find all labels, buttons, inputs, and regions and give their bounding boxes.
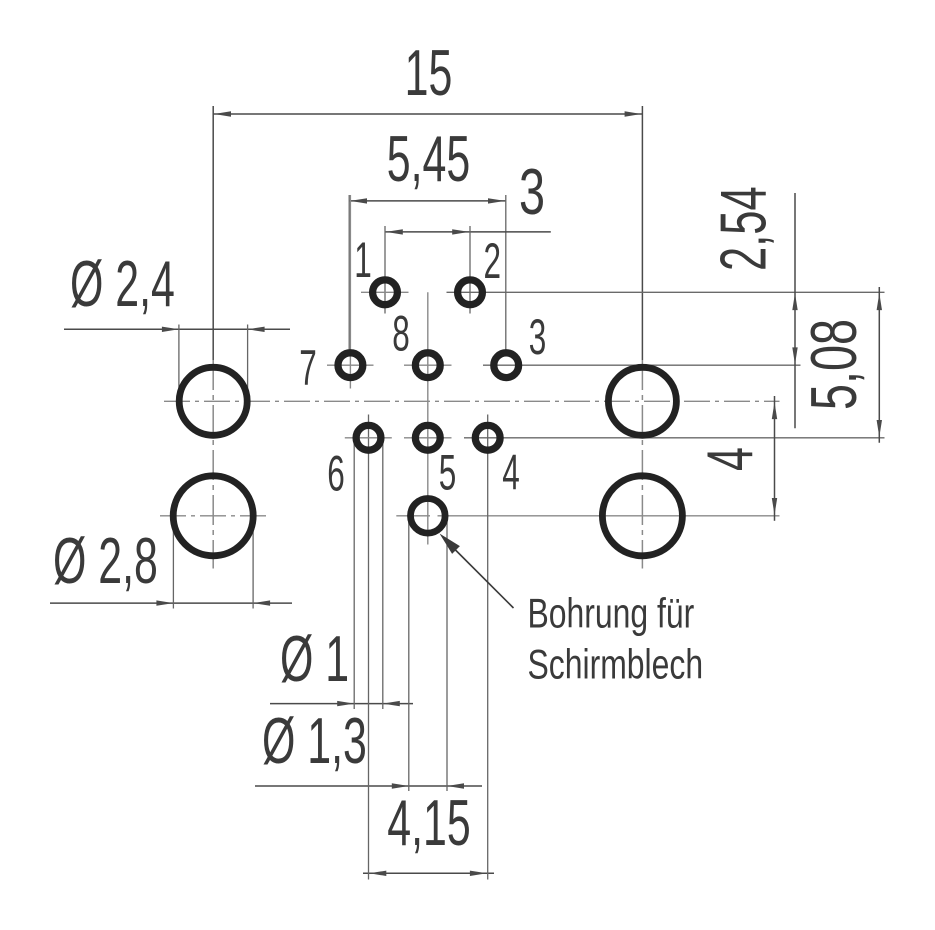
wire row line y=438 from pin 4 to dim 5,08 <box>464 437 885 439</box>
svg-text:4,15: 4,15 <box>387 786 470 859</box>
dimension diameter 1,3 <box>255 516 482 791</box>
wire lower row centerline left segment y=516 <box>160 515 267 517</box>
pin 7 hole <box>338 353 363 378</box>
dimension diameter 1 <box>270 438 413 709</box>
svg-text:8: 8 <box>392 305 410 361</box>
svg-text:15: 15 <box>405 36 453 109</box>
pin 4 hole <box>475 425 500 450</box>
wire vertical centerline right column x=642 <box>641 106 643 569</box>
svg-text:Ø 1,3: Ø 1,3 <box>262 704 367 777</box>
svg-text:Bohrung für: Bohrung für <box>528 589 695 636</box>
mounting hole top right diameter 2,4 <box>608 367 676 435</box>
wire vertical centerline left column x=213 <box>212 106 214 569</box>
svg-text:Schirmblech: Schirmblech <box>528 640 704 687</box>
mounting hole top left diameter 2,4 <box>179 367 247 435</box>
dimension 5,45 line <box>349 195 506 351</box>
dimension 3 line <box>385 226 551 314</box>
pin 5 hole <box>415 425 440 450</box>
pin 2 hole <box>458 280 483 305</box>
crosshair pin 8 <box>404 364 452 366</box>
crosshair pin 1 <box>361 291 409 293</box>
dimension diameter 2,8 <box>50 516 292 609</box>
svg-text:7: 7 <box>299 340 317 396</box>
svg-text:1: 1 <box>354 232 372 288</box>
svg-text:Ø 2,4: Ø 2,4 <box>70 247 175 320</box>
svg-text:5,45: 5,45 <box>387 122 470 195</box>
svg-text:3: 3 <box>529 309 547 365</box>
pin 3 hole <box>494 353 519 378</box>
svg-text:6: 6 <box>327 445 345 501</box>
wire row line y=365 from pin 3 to dim 2,54 <box>483 364 801 366</box>
dimension 5,08 vertical <box>877 287 882 443</box>
wire row line y=292 from pin 2 to dim 5,08 <box>447 291 885 293</box>
mounting hole bottom right diameter 2,8 <box>602 476 682 556</box>
wire lower row centerline y=516 to dim 4 <box>396 515 430 517</box>
svg-text:5: 5 <box>439 444 457 500</box>
shield hole diameter 1,3 <box>411 499 446 534</box>
wire center vertical x=428 through pins 8 5 and shield hole <box>427 292 429 544</box>
svg-text:3: 3 <box>519 157 545 229</box>
pin 6 hole <box>356 425 381 450</box>
leader line to shield hole <box>440 534 514 609</box>
svg-text:Ø 1: Ø 1 <box>280 622 349 695</box>
crosshair pin 7 <box>327 195 374 389</box>
svg-text:Ø 2,8: Ø 2,8 <box>53 524 158 597</box>
svg-text:2,54: 2,54 <box>707 186 780 271</box>
crosshair pin 5 <box>404 437 452 439</box>
svg-text:4: 4 <box>502 444 520 500</box>
pin 1 hole <box>373 280 398 305</box>
dimension 15 line <box>213 111 642 116</box>
svg-text:4: 4 <box>693 447 766 471</box>
pin 8 hole <box>415 353 440 378</box>
svg-text:5,08: 5,08 <box>799 319 871 410</box>
wire main horizontal centerline y=401 <box>164 400 780 402</box>
dimension 4 vertical <box>772 396 777 521</box>
mounting hole bottom left diameter 2,8 <box>173 476 253 556</box>
crosshair pin 6 <box>345 437 392 439</box>
dimension 4,15 <box>363 415 494 880</box>
dimension diameter 2,4 <box>64 325 290 402</box>
dimension 2,54 vertical <box>792 193 797 428</box>
svg-text:2: 2 <box>484 233 502 289</box>
